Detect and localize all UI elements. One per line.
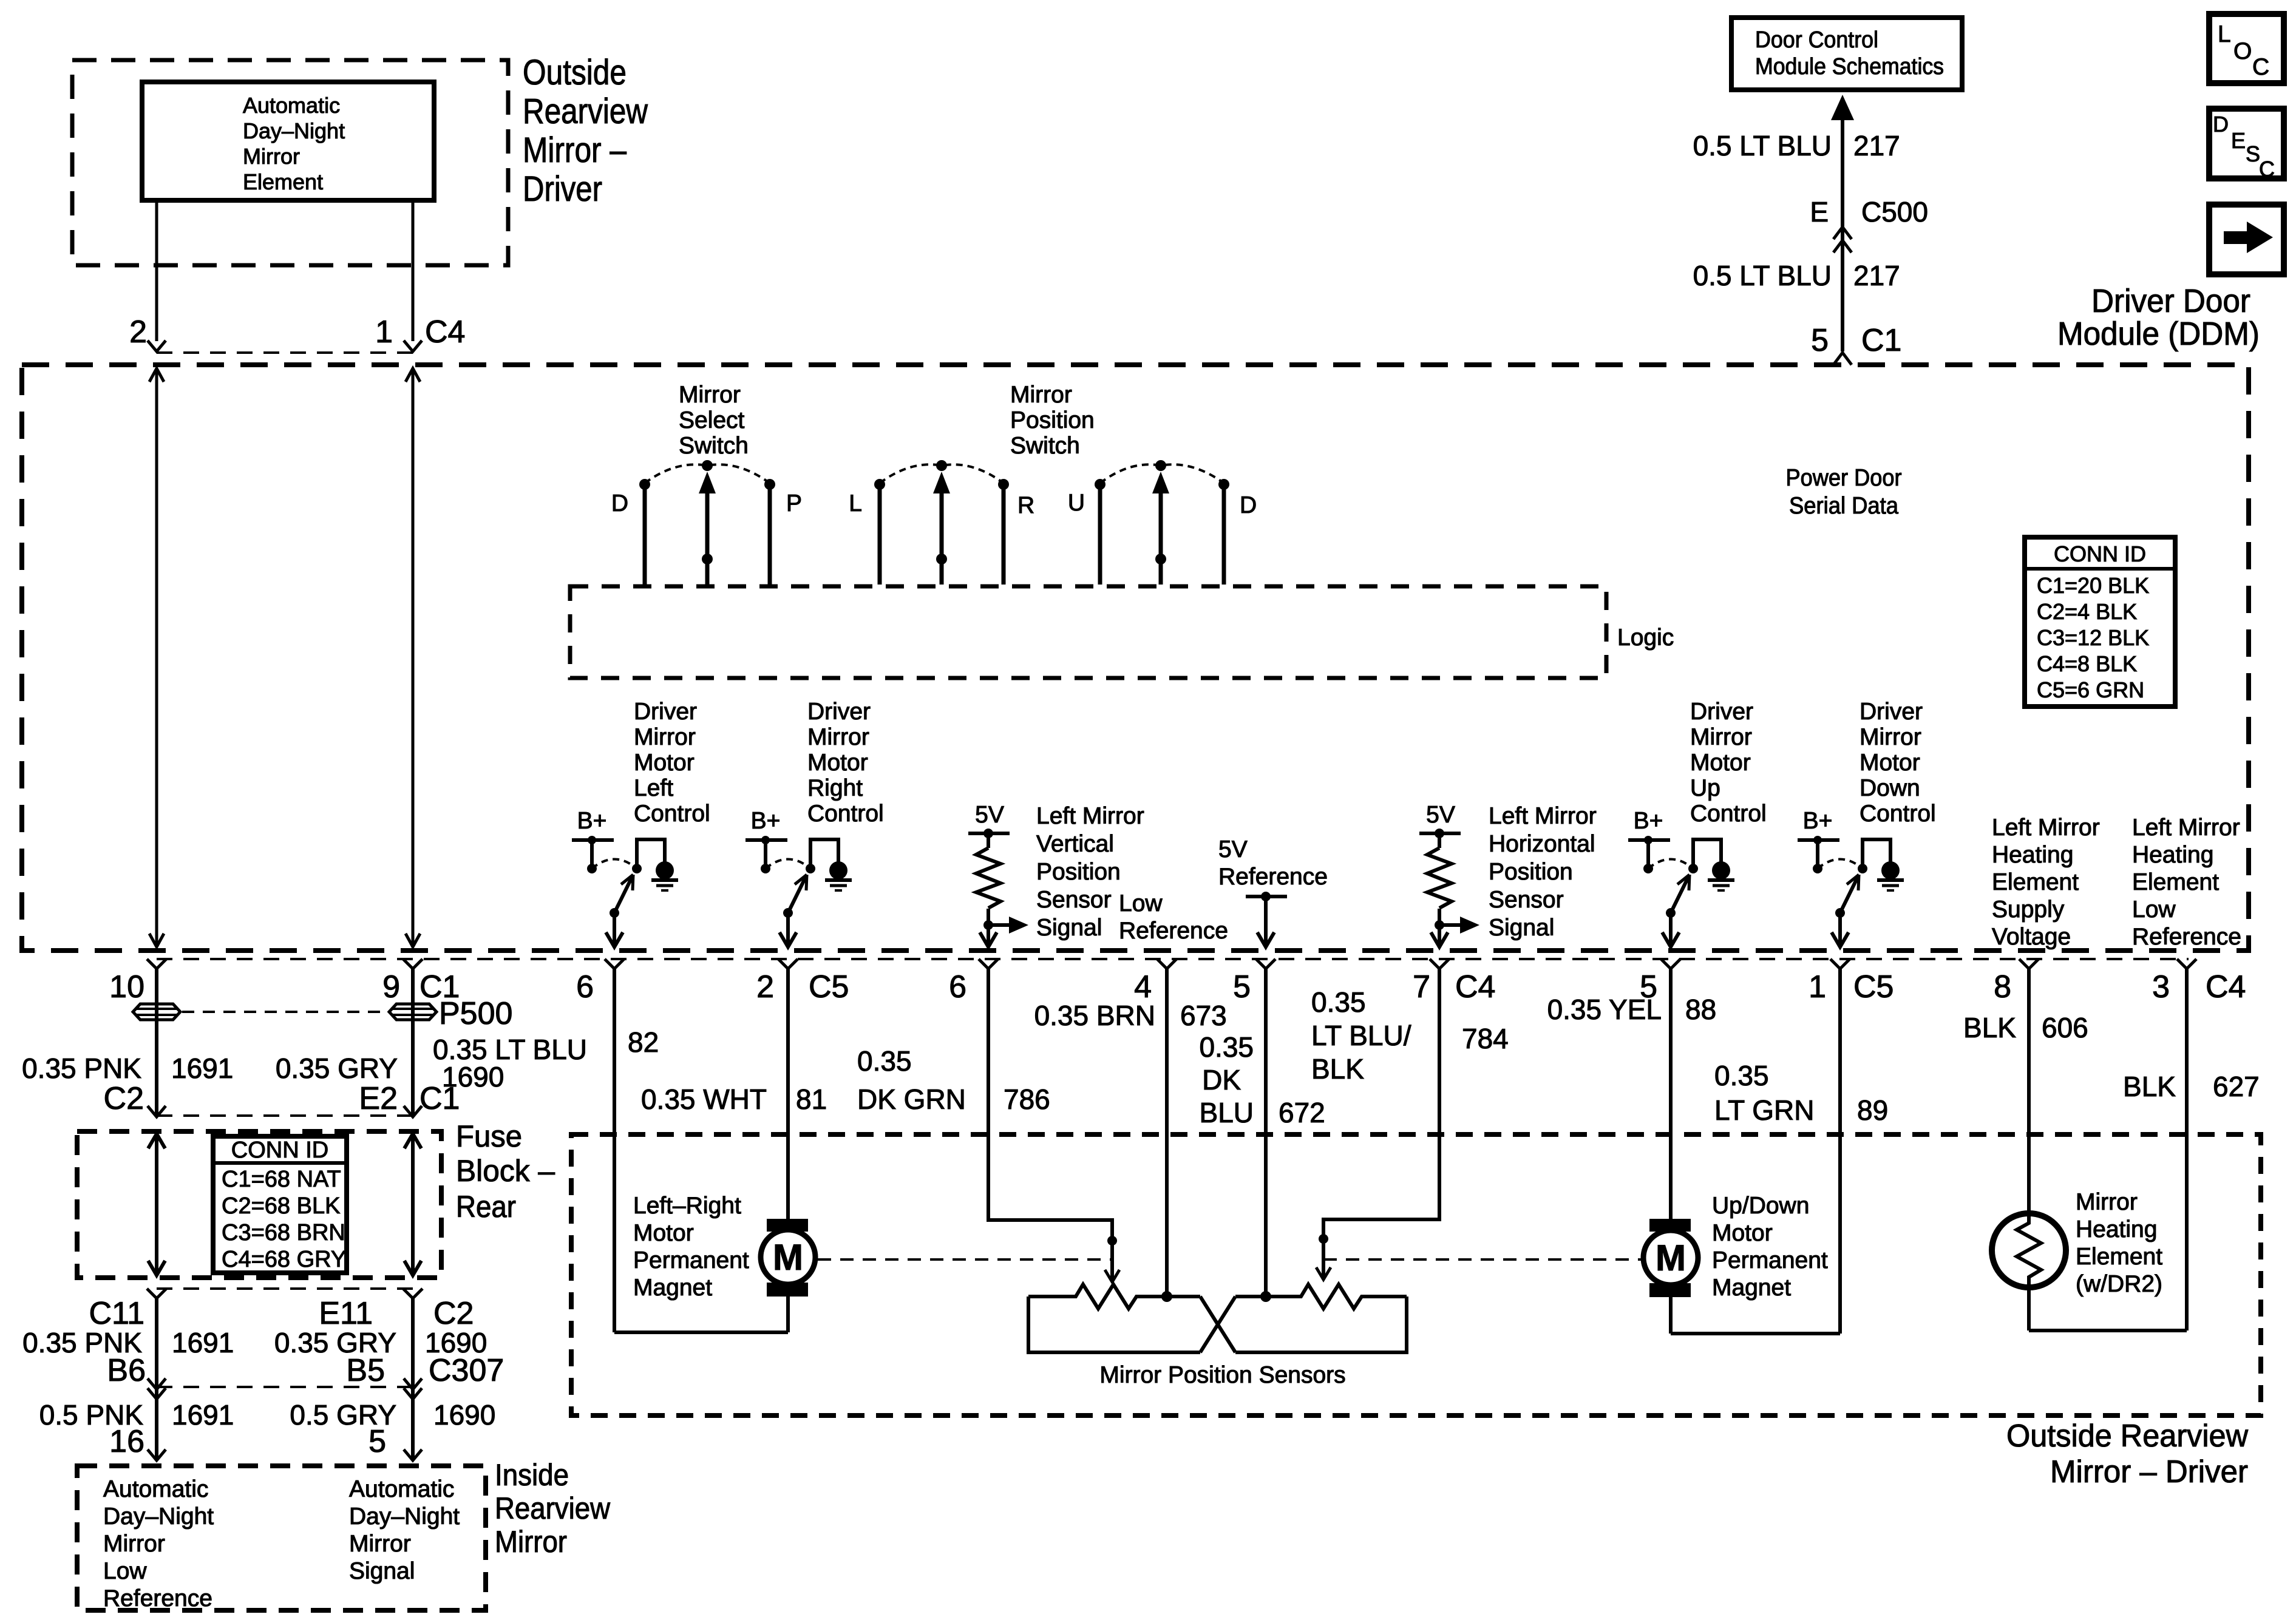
svg-text:Position: Position	[1036, 859, 1121, 885]
connector C4 dashed line (mirror element)	[157, 351, 413, 354]
connector fork pin wire x=2752	[1661, 959, 1680, 969]
svg-text:M: M	[1656, 1238, 1686, 1278]
C307 double chevrons	[148, 1378, 166, 1389]
connector C307 line	[157, 1386, 413, 1388]
svg-text:89: 89	[1857, 1094, 1888, 1126]
svg-text:Select: Select	[679, 407, 745, 433]
svg-text:C307: C307	[429, 1353, 504, 1388]
svg-text:Voltage: Voltage	[1992, 924, 2071, 950]
svg-text:0.35 PNK: 0.35 PNK	[22, 1053, 141, 1084]
svg-text:P500: P500	[439, 996, 512, 1031]
svg-text:C1=20 BLK: C1=20 BLK	[2037, 573, 2149, 598]
wire pin5 C5 down to motor2	[1669, 968, 1673, 1220]
ground	[810, 839, 838, 869]
wire: power door serial data 217	[1841, 120, 1844, 351]
automatic day-night mirror element box	[142, 82, 434, 200]
svg-text:0.35 GRY: 0.35 GRY	[276, 1053, 398, 1084]
svg-text:BLK: BLK	[2123, 1071, 2176, 1102]
svg-text:BLK: BLK	[1311, 1053, 1364, 1085]
arrow icon box	[2209, 205, 2284, 274]
svg-text:LT BLU/: LT BLU/	[1311, 1020, 1411, 1051]
svg-text:1: 1	[375, 314, 393, 350]
svg-text:5V: 5V	[1426, 802, 1455, 828]
signal tap arrow	[988, 923, 1009, 927]
svg-text:C1: C1	[419, 1081, 460, 1116]
svg-text:673: 673	[1180, 1000, 1227, 1031]
svg-text:Driver: Driver	[1860, 699, 1923, 725]
wire pin6 C5 down to motor loop	[613, 968, 616, 1332]
svg-text:5V: 5V	[1218, 836, 1248, 863]
svg-text:Block –: Block –	[456, 1154, 555, 1188]
svg-text:C3=12 BLK: C3=12 BLK	[2037, 625, 2149, 650]
wire: mirror element pin 1 to DDM	[412, 200, 415, 341]
svg-text:1691: 1691	[171, 1053, 233, 1084]
crossover X	[1200, 1297, 1235, 1352]
svg-text:M: M	[773, 1237, 803, 1278]
svg-text:2: 2	[129, 314, 147, 350]
arrowhead into door control module	[1831, 95, 1854, 120]
svg-text:Heating: Heating	[2076, 1216, 2157, 1242]
connector line C2/E2	[157, 1114, 413, 1117]
svg-text:Day–Night: Day–Night	[243, 118, 345, 143]
svg-text:Left–Right: Left–Right	[633, 1193, 741, 1219]
connector C500 double chevron	[1833, 227, 1852, 239]
svg-text:Mirror: Mirror	[679, 382, 741, 408]
up/down motor M2	[1649, 1219, 1691, 1232]
dashed mech link motor1 to left pot wiper	[818, 1258, 1112, 1261]
svg-text:D: D	[611, 490, 628, 517]
svg-text:Reference: Reference	[1218, 864, 1328, 890]
svg-text:5: 5	[369, 1424, 386, 1459]
svg-text:L: L	[2218, 21, 2231, 47]
svg-text:Switch: Switch	[679, 433, 749, 459]
svg-text:Mirror: Mirror	[2076, 1189, 2138, 1215]
svg-text:Element: Element	[243, 169, 323, 194]
svg-text:Mirror: Mirror	[103, 1531, 165, 1557]
svg-text:Element: Element	[2076, 1244, 2162, 1270]
svg-text:Reference: Reference	[2132, 924, 2241, 950]
svg-text:Horizontal: Horizontal	[1489, 831, 1595, 857]
svg-text:5: 5	[1233, 969, 1251, 1005]
svg-text:6: 6	[949, 969, 966, 1005]
wire 1690 to inside mirror	[411, 1298, 415, 1460]
svg-text:Mirror: Mirror	[807, 724, 869, 750]
switch terminal line at 1449	[878, 483, 882, 585]
switch terminal line at 1268	[768, 483, 772, 585]
svg-text:Day–Night: Day–Night	[103, 1503, 214, 1530]
B+ feed	[746, 838, 787, 842]
CONN ID table (fuse block)	[213, 1136, 347, 1273]
svg-text:Mirror: Mirror	[1010, 382, 1072, 408]
svg-text:C4: C4	[2206, 969, 2246, 1005]
wire to connector	[786, 913, 790, 947]
B+ feed	[1628, 838, 1670, 842]
ground	[637, 839, 665, 869]
svg-text:C4: C4	[425, 314, 465, 350]
left potentiometer	[1028, 1284, 1200, 1309]
svg-text:9: 9	[382, 969, 400, 1005]
wire pin8 C4 to heater	[2027, 968, 2031, 1213]
heater loop bottom wire	[2029, 1329, 2187, 1332]
svg-text:16: 16	[109, 1424, 144, 1459]
svg-text:E: E	[2231, 128, 2246, 153]
connector line C11/E11	[157, 1287, 413, 1290]
svg-text:Motor: Motor	[1712, 1220, 1773, 1246]
svg-text:C: C	[2252, 54, 2269, 80]
svg-text:784: 784	[1462, 1023, 1509, 1054]
svg-text:5: 5	[1811, 323, 1829, 358]
LOC icon box	[2209, 14, 2284, 83]
svg-text:C: C	[2259, 157, 2275, 181]
svg-text:Down: Down	[1860, 775, 1920, 801]
wire through fuse block (1690)	[411, 1134, 415, 1275]
svg-text:C2=68 BLK: C2=68 BLK	[222, 1193, 340, 1219]
left wiper arrow	[1110, 1241, 1114, 1282]
B+ feed	[1798, 838, 1839, 842]
svg-text:7: 7	[1413, 969, 1430, 1005]
svg-text:O: O	[2233, 38, 2252, 64]
svg-text:Control: Control	[807, 801, 884, 827]
svg-text:Mirror –: Mirror –	[523, 131, 627, 170]
svg-text:C4=8 BLK: C4=8 BLK	[2037, 651, 2137, 676]
svg-text:Control: Control	[634, 801, 710, 827]
svg-text:672: 672	[1279, 1097, 1325, 1128]
outside rearview mirror driver box (top-left dashed enclosure)	[72, 60, 508, 265]
svg-text:81: 81	[796, 1083, 827, 1115]
svg-text:0.35: 0.35	[1714, 1060, 1769, 1091]
svg-text:Signal: Signal	[1036, 915, 1102, 941]
svg-text:DK: DK	[1202, 1064, 1241, 1096]
svg-text:217: 217	[1853, 130, 1900, 161]
svg-text:Low: Low	[103, 1558, 147, 1584]
connector fork pin wire x=680	[403, 959, 423, 969]
svg-text:Driver: Driver	[523, 169, 602, 209]
switch arm	[1840, 875, 1859, 913]
svg-text:0.35 WHT: 0.35 WHT	[641, 1083, 767, 1115]
svg-text:L: L	[849, 490, 862, 517]
svg-text:88: 88	[1685, 994, 1716, 1025]
svg-text:Mirror: Mirror	[634, 724, 696, 750]
svg-text:Driver Door: Driver Door	[2091, 283, 2250, 319]
svg-text:C1: C1	[1861, 323, 1901, 358]
wire 1691 to inside mirror	[155, 1298, 158, 1460]
grommet P500 left	[133, 1004, 180, 1020]
svg-text:Serial Data: Serial Data	[1789, 493, 1898, 519]
svg-text:5V: 5V	[975, 802, 1004, 828]
svg-text:Mirror: Mirror	[1860, 724, 1921, 750]
wire 1690 inside DDM (pin 9)	[412, 368, 415, 947]
svg-text:Signal: Signal	[349, 1558, 415, 1584]
wire pin1 C5 down to motor2 loop	[1838, 968, 1842, 1334]
svg-text:C2: C2	[433, 1296, 474, 1331]
svg-text:C3=68 BRN: C3=68 BRN	[222, 1220, 345, 1246]
connector fork pin wire x=1298	[778, 959, 798, 969]
wire pin5 C4 to right pot	[1264, 968, 1268, 1297]
svg-text:Vertical: Vertical	[1036, 831, 1114, 857]
svg-text:Control: Control	[1690, 801, 1767, 827]
connector fork pin wire x=1012	[605, 959, 624, 969]
Driver Door Module (DDM) dashed enclosure	[22, 365, 2249, 951]
svg-text:E11: E11	[319, 1296, 373, 1331]
svg-text:0.35 YEL: 0.35 YEL	[1547, 994, 1662, 1025]
svg-text:Element: Element	[1992, 869, 2079, 895]
switch wiper arrow at 1551	[940, 492, 944, 585]
svg-text:Module (DDM): Module (DDM)	[2057, 316, 2260, 352]
svg-text:1691: 1691	[172, 1399, 234, 1431]
signal tap arrow	[1439, 923, 1460, 927]
switch terminal line at 1062	[643, 483, 647, 585]
right wiper arrow	[1322, 1239, 1325, 1280]
svg-text:Left Mirror: Left Mirror	[1489, 803, 1597, 829]
svg-text:Element: Element	[2132, 869, 2219, 895]
connector fork pin wire x=3342	[2019, 959, 2039, 969]
svg-text:Low: Low	[2132, 897, 2176, 923]
svg-text:Left: Left	[634, 775, 673, 801]
svg-text:B6: B6	[107, 1353, 146, 1388]
switch dashed arc	[1100, 464, 1224, 483]
svg-text:0.35 BRN: 0.35 BRN	[1034, 1000, 1155, 1031]
wire pin2 C5 down to motor	[786, 968, 790, 1220]
wire to connector	[1838, 913, 1842, 947]
grommet dashed link	[182, 1011, 387, 1013]
motor2 loop bottom wire	[1671, 1332, 1840, 1335]
svg-text:R: R	[1017, 492, 1034, 518]
right potentiometer	[1235, 1284, 1407, 1309]
grommet P500 right	[389, 1004, 436, 1020]
svg-text:Up/Down: Up/Down	[1712, 1193, 1809, 1219]
svg-text:2: 2	[756, 969, 774, 1005]
svg-text:1691: 1691	[172, 1327, 234, 1358]
svg-text:Inside: Inside	[495, 1458, 569, 1492]
svg-text:1690: 1690	[433, 1399, 495, 1431]
svg-text:C2: C2	[104, 1081, 144, 1116]
svg-text:Day–Night: Day–Night	[349, 1503, 460, 1530]
svg-text:Control: Control	[1860, 801, 1936, 827]
svg-text:Outside Rearview: Outside Rearview	[2006, 1419, 2248, 1454]
wire through fuse block (1691)	[155, 1134, 158, 1275]
svg-text:C5: C5	[1853, 969, 1894, 1005]
svg-text:Right: Right	[807, 775, 863, 801]
svg-text:Driver: Driver	[1690, 699, 1753, 725]
svg-text:C1=68 NAT: C1=68 NAT	[222, 1167, 341, 1192]
svg-text:B+: B+	[577, 808, 607, 834]
connector fork pin wire x=1628	[979, 959, 998, 969]
svg-text:Automatic: Automatic	[349, 1476, 454, 1502]
svg-text:Module Schematics: Module Schematics	[1755, 54, 1944, 80]
svg-text:Automatic: Automatic	[103, 1476, 208, 1502]
svg-text:BLU: BLU	[1200, 1097, 1254, 1128]
svg-text:D: D	[2213, 112, 2229, 137]
connector fork pin wire x=258	[147, 959, 166, 969]
svg-text:Mirror: Mirror	[1690, 724, 1752, 750]
svg-text:0.5 LT BLU: 0.5 LT BLU	[1693, 130, 1832, 161]
svg-text:1: 1	[1809, 969, 1826, 1005]
svg-text:Supply: Supply	[1992, 897, 2065, 923]
svg-text:Motor: Motor	[807, 750, 868, 776]
svg-text:Signal: Signal	[1489, 915, 1554, 941]
svg-text:C500: C500	[1861, 196, 1928, 228]
Inside Rearview Mirror dashed enclosure	[77, 1466, 486, 1610]
svg-text:217: 217	[1853, 260, 1900, 291]
mirror heating element	[1992, 1213, 2066, 1287]
wire pin4 C4 to left pot	[1165, 968, 1169, 1297]
svg-text:Reference: Reference	[103, 1585, 212, 1612]
ground	[1693, 839, 1721, 869]
svg-text:0.35: 0.35	[1311, 986, 1366, 1018]
wire pin3 C4 to heater loop	[2185, 968, 2189, 1331]
svg-text:Heating: Heating	[1992, 842, 2073, 868]
svg-text:Outside: Outside	[523, 53, 627, 92]
wire to connector	[613, 913, 616, 947]
svg-text:Left Mirror: Left Mirror	[1992, 815, 2100, 841]
CONN ID table (DDM)	[2025, 537, 2175, 707]
svg-text:Fuse: Fuse	[456, 1119, 522, 1153]
svg-text:0.35: 0.35	[857, 1045, 912, 1077]
wire 1690 pin9 to fuse block	[411, 968, 415, 1116]
svg-text:B+: B+	[751, 808, 781, 834]
svg-text:LT GRN: LT GRN	[1714, 1094, 1814, 1126]
svg-text:Rear: Rear	[456, 1190, 516, 1224]
svg-text:Door Control: Door Control	[1755, 27, 1878, 53]
DESC icon box	[2209, 109, 2284, 178]
svg-text:D: D	[1240, 492, 1257, 518]
svg-text:Mirror: Mirror	[349, 1531, 411, 1557]
svg-text:B+: B+	[1634, 808, 1663, 834]
svg-text:E2: E2	[359, 1081, 398, 1116]
svg-text:8: 8	[1994, 969, 2011, 1005]
switch dashed arc	[880, 464, 1004, 483]
DDM bottom connector dashed line	[157, 958, 2189, 960]
svg-text:C5=6 GRN: C5=6 GRN	[2037, 677, 2144, 702]
switch terminal line at 2016	[1222, 483, 1226, 585]
wire: mirror element pin 2 to DDM	[155, 200, 158, 341]
Outside Rearview Mirror - Driver dashed enclosure (bottom)	[571, 1134, 2261, 1415]
svg-text:(w/DR2): (w/DR2)	[2076, 1271, 2162, 1297]
svg-text:Motor: Motor	[1860, 750, 1920, 776]
svg-text:Automatic: Automatic	[243, 93, 340, 118]
svg-text:Rearview: Rearview	[495, 1491, 611, 1525]
svg-text:Left Mirror: Left Mirror	[2132, 815, 2240, 841]
svg-text:DK GRN: DK GRN	[857, 1083, 966, 1115]
svg-text:BLK: BLK	[1963, 1012, 2016, 1043]
svg-text:Magnet: Magnet	[1712, 1275, 1791, 1301]
svg-text:0.35: 0.35	[1199, 1031, 1254, 1063]
switch wiper arrow at 1912	[1159, 492, 1163, 585]
svg-text:Logic: Logic	[1617, 625, 1674, 651]
svg-text:Magnet: Magnet	[633, 1275, 712, 1301]
connector fork pin wire x=2085	[1256, 959, 1275, 969]
svg-text:Mirror: Mirror	[495, 1525, 567, 1559]
wire 1691 pin10 to fuse block	[155, 968, 158, 1116]
svg-text:CONN ID: CONN ID	[2054, 541, 2146, 566]
svg-text:Sensor: Sensor	[1489, 887, 1564, 913]
svg-text:627: 627	[2213, 1071, 2260, 1102]
svg-text:786: 786	[1004, 1083, 1050, 1115]
dashed mech link right pot wiper to motor2	[1323, 1258, 1641, 1261]
switch terminal line at 1653	[1002, 483, 1006, 585]
svg-text:Motor: Motor	[1690, 750, 1751, 776]
svg-text:Motor: Motor	[634, 750, 695, 776]
logic block (dashed)	[570, 586, 1606, 678]
svg-text:Low: Low	[1119, 890, 1163, 917]
switch terminal line at 1812	[1098, 483, 1102, 585]
svg-text:0.5 LT BLU: 0.5 LT BLU	[1693, 260, 1832, 291]
svg-text:Position: Position	[1010, 407, 1095, 433]
connector fork pin wire x=3031	[1830, 959, 1850, 969]
svg-text:U: U	[1068, 490, 1085, 516]
Door Control Module Schematics box	[1731, 18, 1962, 90]
motor loop bottom wire	[614, 1331, 788, 1334]
svg-text:Heating: Heating	[2132, 842, 2213, 868]
connector fork pin wire x=2371	[1430, 959, 1449, 969]
svg-text:S: S	[2246, 141, 2260, 166]
ground	[1863, 839, 1890, 869]
chevron at DDM border (serial data)	[1833, 353, 1852, 365]
wire pin6 C4 to left wiper	[988, 968, 1112, 1241]
switch wiper arrow at 1165	[705, 492, 710, 585]
svg-text:CONN ID: CONN ID	[231, 1137, 328, 1163]
left-right motor M1	[767, 1219, 808, 1232]
svg-text:B+: B+	[1803, 808, 1833, 834]
B+ feed	[572, 838, 614, 842]
svg-text:Motor: Motor	[633, 1220, 694, 1246]
svg-text:Switch: Switch	[1010, 433, 1080, 459]
switch arm	[614, 875, 633, 913]
switch arm	[788, 875, 807, 913]
svg-text:C2=4 BLK: C2=4 BLK	[2037, 599, 2137, 624]
svg-text:10: 10	[109, 969, 144, 1005]
connector fork pin wire x=1922	[1157, 959, 1177, 969]
svg-text:606: 606	[2042, 1012, 2088, 1043]
svg-text:Driver: Driver	[634, 699, 697, 725]
svg-text:Sensor: Sensor	[1036, 887, 1112, 913]
Fuse Block - Rear dashed enclosure	[77, 1131, 441, 1278]
svg-text:3: 3	[2152, 969, 2170, 1005]
svg-text:Mirror: Mirror	[243, 144, 300, 169]
connector fork pin wire x=3602	[2177, 959, 2196, 969]
svg-text:Driver: Driver	[807, 699, 871, 725]
svg-text:C4: C4	[1455, 969, 1495, 1005]
svg-text:C4=68 GRY: C4=68 GRY	[222, 1247, 346, 1272]
svg-text:Mirror Position Sensors: Mirror Position Sensors	[1099, 1362, 1345, 1388]
switch arm	[1671, 875, 1690, 913]
svg-text:C11: C11	[89, 1296, 144, 1331]
svg-text:Left Mirror: Left Mirror	[1036, 803, 1144, 829]
svg-text:Up: Up	[1690, 775, 1720, 801]
svg-text:P: P	[786, 490, 802, 517]
svg-text:Rearview: Rearview	[523, 92, 648, 131]
svg-text:6: 6	[576, 969, 594, 1005]
svg-text:E: E	[1810, 196, 1829, 228]
svg-text:Position: Position	[1489, 859, 1573, 885]
wire to connector	[1669, 913, 1673, 947]
wire 1691 inside DDM (pin 10)	[155, 368, 158, 947]
svg-text:Permanent: Permanent	[1712, 1247, 1828, 1273]
svg-text:Power Door: Power Door	[1786, 465, 1902, 491]
svg-text:C5: C5	[809, 969, 849, 1005]
switch dashed arc	[645, 464, 770, 483]
wire pin7 C4 to right wiper	[1323, 968, 1439, 1239]
svg-text:82: 82	[628, 1026, 659, 1058]
svg-text:Reference: Reference	[1119, 918, 1228, 944]
svg-text:Permanent: Permanent	[633, 1247, 749, 1273]
svg-text:B5: B5	[346, 1353, 385, 1388]
svg-text:Mirror – Driver: Mirror – Driver	[2050, 1454, 2248, 1490]
